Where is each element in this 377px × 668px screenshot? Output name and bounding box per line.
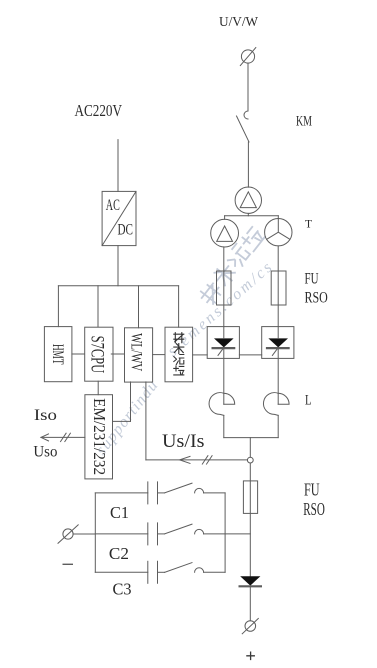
- capacitor C1: [95, 492, 148, 494]
- wire trigger: [193, 354, 208, 356]
- wire: [249, 438, 251, 458]
- svg-text:Uso: Uso: [33, 444, 57, 461]
- svg-text:RSO: RSO: [305, 290, 328, 307]
- svg-text:RSO: RSO: [303, 499, 325, 519]
- svg-text:AC: AC: [106, 197, 120, 214]
- thyristor V1: [207, 327, 239, 359]
- wire power bus: [58, 285, 178, 287]
- wire: [224, 216, 226, 220]
- wire cap bus right: [224, 493, 226, 572]
- svg-text:DC: DC: [118, 222, 134, 239]
- wire from WL/WV sense: [145, 382, 147, 460]
- module trigger (phase-shift): [165, 327, 193, 382]
- switch C1: [165, 483, 192, 493]
- svg-text:S7CPU: S7CPU: [87, 336, 107, 374]
- wire: [223, 415, 225, 437]
- svg-text:L: L: [305, 393, 312, 409]
- svg-text:HMT: HMT: [49, 344, 66, 365]
- transformer T secondary right (wye): [265, 219, 292, 246]
- svg-text:C3: C3: [113, 579, 132, 598]
- transformer T secondary left (delta): [211, 219, 239, 247]
- svg-text:FU: FU: [305, 271, 319, 288]
- wire: [223, 348, 225, 404]
- wire Iso/Uso arrow: [41, 436, 85, 438]
- capacitor C2: [95, 533, 148, 535]
- module HMT: [44, 327, 72, 382]
- wire: [247, 213, 249, 215]
- svg-text:EM/231/232: EM/231/232: [90, 398, 109, 475]
- svg-text:U/V/W: U/V/W: [219, 15, 259, 30]
- wire: [113, 420, 131, 422]
- terminal minus: [63, 529, 73, 539]
- wire: [73, 533, 95, 535]
- switch C2: [165, 524, 192, 534]
- wire: [111, 353, 124, 355]
- wire: [223, 271, 225, 327]
- wire: [72, 353, 84, 355]
- svg-text:FU: FU: [304, 479, 320, 499]
- module EM/231/232: [85, 395, 113, 479]
- wire: [277, 216, 279, 219]
- wire: [153, 354, 165, 356]
- svg-text:WL/WV: WL/WV: [128, 333, 145, 371]
- wire: [249, 586, 251, 620]
- wire: [249, 463, 251, 576]
- svg-text:KM: KM: [296, 114, 312, 130]
- reactor L right: [263, 393, 289, 416]
- wire: [138, 286, 140, 328]
- svg-text:C2: C2: [109, 544, 129, 563]
- svg-text:AC220V: AC220V: [75, 101, 123, 120]
- svg-text:C1: C1: [110, 503, 129, 522]
- svg-text:T: T: [305, 219, 312, 231]
- terminal plus: [245, 621, 256, 632]
- wire: [247, 142, 249, 187]
- diode VD: [240, 576, 260, 585]
- wire: [247, 63, 249, 111]
- switch KM: [244, 111, 248, 119]
- capacitor C3: [95, 571, 148, 573]
- wire: [277, 348, 279, 404]
- wire: [117, 246, 119, 286]
- wire Us/Is: [146, 459, 248, 461]
- wire: [223, 247, 225, 271]
- wire: [117, 140, 119, 192]
- fuse FU RSO dc: [243, 481, 257, 514]
- module WL/WV: [125, 328, 153, 382]
- fuse FU RSO right: [271, 271, 286, 305]
- wire: [97, 286, 99, 327]
- label minus: [63, 563, 72, 565]
- wire: [130, 382, 132, 422]
- module S7CPU: [85, 327, 113, 381]
- wire: [277, 415, 279, 437]
- wire: [224, 437, 278, 439]
- wire trigger: [239, 354, 261, 356]
- svg-text:Iso: Iso: [34, 407, 57, 424]
- transformer T primary (delta): [235, 187, 261, 213]
- terminal U/V/W: [241, 50, 254, 63]
- wire: [97, 381, 99, 395]
- label +: [247, 652, 254, 659]
- svg-text:Us/Is: Us/Is: [162, 431, 205, 452]
- converter AC/DC: [102, 191, 136, 245]
- wire: [277, 246, 279, 271]
- thyristor V2: [262, 327, 294, 359]
- fuse FU RSO left: [217, 271, 232, 305]
- reactor L left: [209, 393, 235, 416]
- wire: [178, 286, 180, 327]
- wire cap bus left: [94, 493, 96, 572]
- node junction: [247, 457, 253, 463]
- wire: [225, 215, 279, 217]
- wire: [225, 533, 250, 535]
- watermark (decorative): [93, 226, 277, 458]
- wire: [277, 271, 279, 327]
- wire: [57, 286, 59, 327]
- switch C3: [165, 563, 192, 573]
